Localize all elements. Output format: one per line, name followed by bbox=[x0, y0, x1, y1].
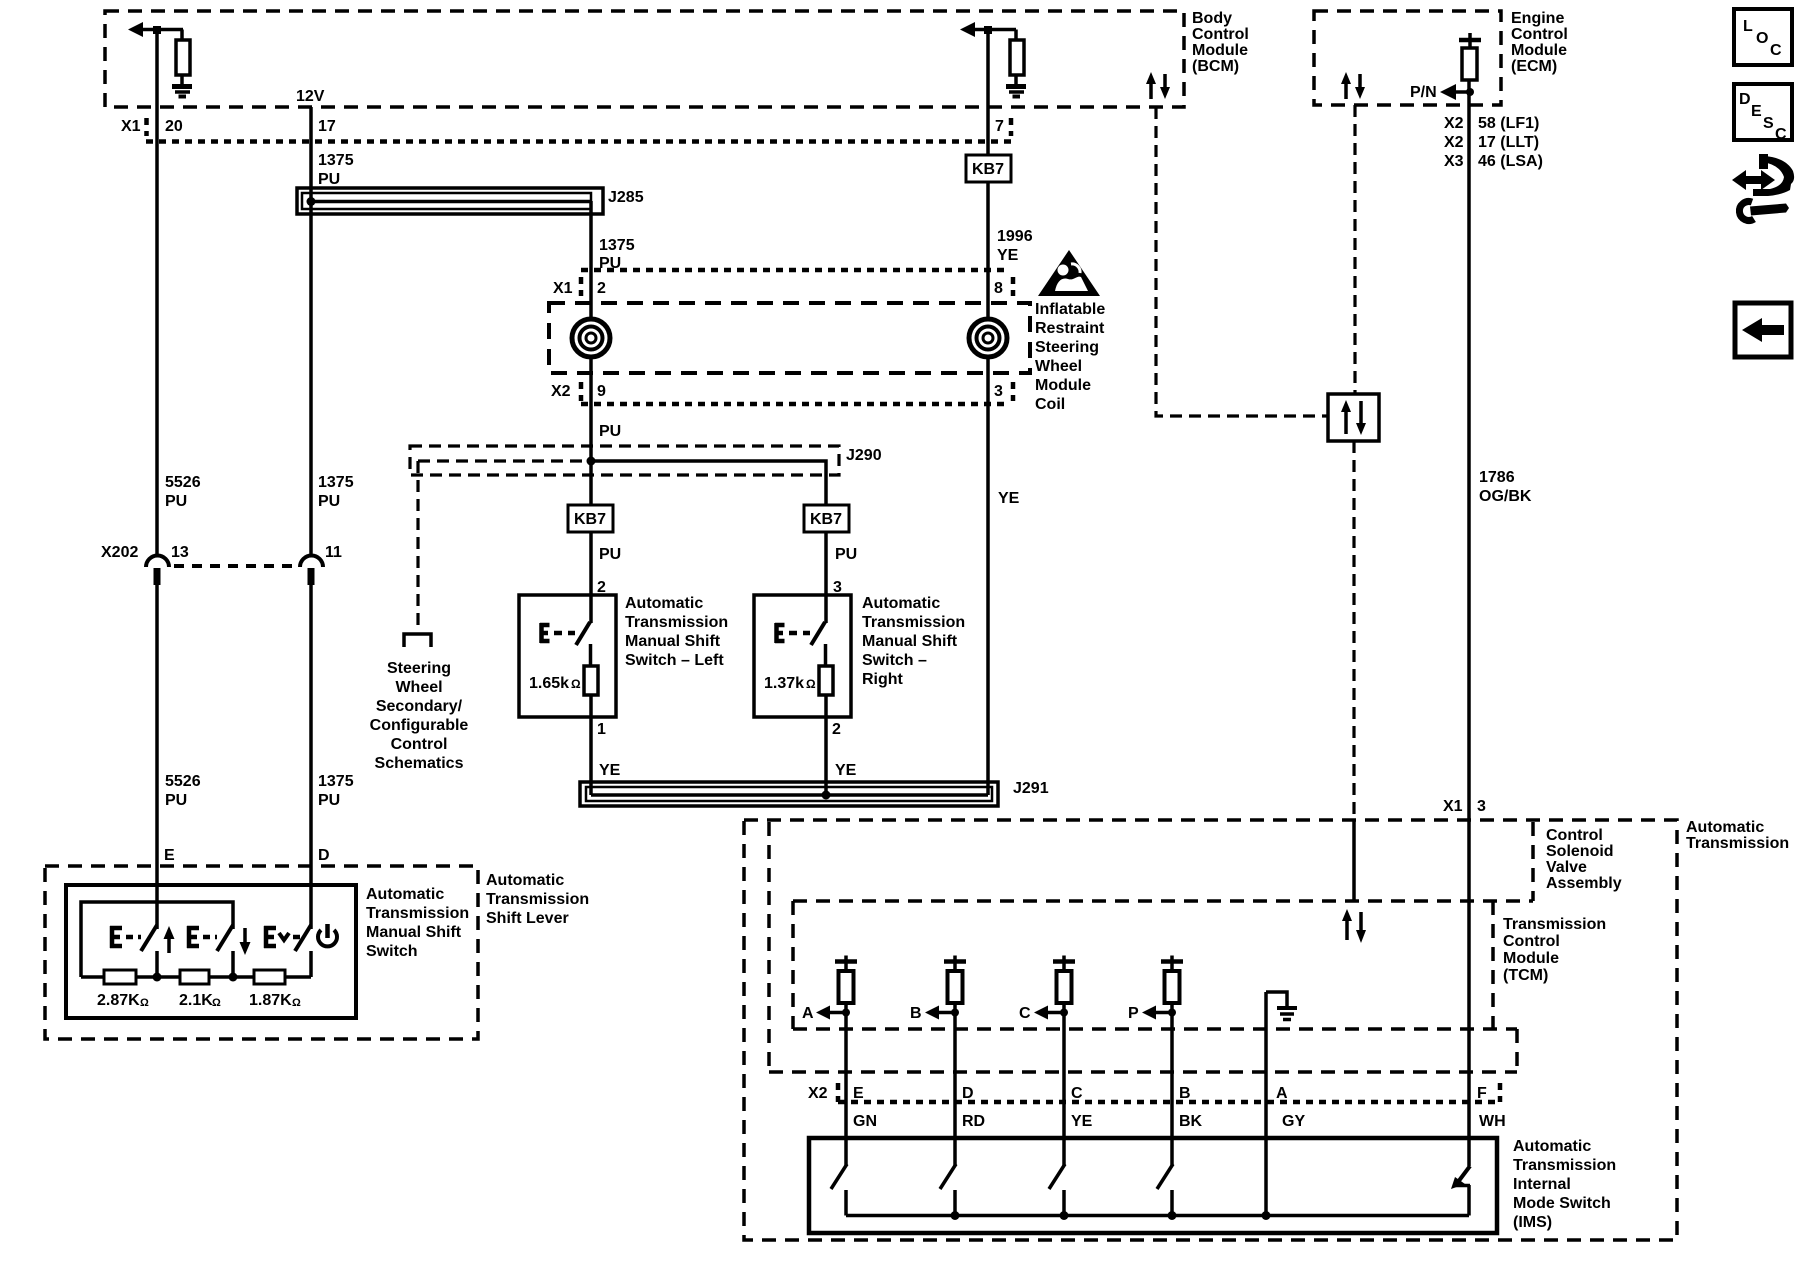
svg-text:O: O bbox=[1756, 30, 1768, 47]
svg-text:Steering: Steering bbox=[1035, 339, 1099, 356]
coil left (clockspring) bbox=[572, 319, 610, 357]
svg-text:BK: BK bbox=[1179, 1113, 1203, 1130]
label 1375 PU lower bbox=[318, 773, 354, 809]
label 2.87K ohm bbox=[97, 992, 149, 1009]
svg-text:1375: 1375 bbox=[599, 237, 635, 254]
svg-text:Configurable: Configurable bbox=[370, 717, 469, 734]
switch box left (Automatic Transmission Manual Shift Switch - Left) bbox=[519, 595, 616, 717]
label Control Solenoid Valve Assembly bbox=[1546, 827, 1622, 892]
label Automatic Transmission Shift Lever bbox=[486, 872, 589, 927]
svg-text:Transmission: Transmission bbox=[625, 614, 728, 631]
switch IMS E bbox=[831, 1164, 847, 1216]
svg-text:1786: 1786 bbox=[1479, 469, 1515, 486]
svg-text:OG/BK: OG/BK bbox=[1479, 488, 1532, 505]
svg-text:PU: PU bbox=[599, 423, 621, 440]
connector X1 pin 3 (transmission) bbox=[1443, 798, 1486, 815]
connector X1 row (coil module) bbox=[553, 270, 1013, 297]
label 5526 PU lower bbox=[165, 773, 201, 809]
svg-text:Control: Control bbox=[1503, 933, 1560, 950]
svg-text:Internal: Internal bbox=[1513, 1176, 1571, 1193]
svg-text:Transmission: Transmission bbox=[1503, 916, 1606, 933]
svg-text:Transmission: Transmission bbox=[1513, 1157, 1616, 1174]
svg-text:Module: Module bbox=[1035, 377, 1091, 394]
svg-text:X2: X2 bbox=[551, 383, 571, 400]
svg-text:PU: PU bbox=[165, 493, 187, 510]
label Body Control Module (BCM) bbox=[1192, 10, 1249, 75]
label 1375 PU upper (wire 11) bbox=[318, 474, 354, 510]
arrow up (upshift) bbox=[164, 926, 175, 953]
resistor 1.87K bbox=[254, 970, 285, 984]
switch IMS D bbox=[940, 1164, 956, 1216]
wire ECM pin to IMS F bbox=[1467, 80, 1471, 1166]
svg-text:Right: Right bbox=[862, 671, 904, 688]
wire solenoid C to IMS C bbox=[1062, 1003, 1066, 1166]
icon power (tap mode) bbox=[318, 924, 337, 946]
svg-text:8: 8 bbox=[994, 280, 1003, 297]
connector X202 pin 11 bbox=[300, 544, 342, 585]
connector X2 row (coil module) bbox=[551, 382, 1013, 404]
wire serial data ECM dashed bbox=[1353, 105, 1356, 394]
svg-text:Automatic: Automatic bbox=[486, 872, 564, 889]
svg-text:YE: YE bbox=[1071, 1113, 1093, 1130]
svg-text:Transmission: Transmission bbox=[1686, 835, 1789, 852]
resistor 2.1K bbox=[180, 970, 209, 984]
svg-text:PU: PU bbox=[165, 792, 187, 809]
svg-text:46 (LSA): 46 (LSA) bbox=[1478, 153, 1543, 170]
solenoid B (wire D) bbox=[944, 956, 966, 1004]
splice J290 dashed box bbox=[410, 446, 839, 475]
icon LOC box bbox=[1734, 9, 1792, 65]
svg-text:P/N: P/N bbox=[1410, 84, 1437, 101]
wire X202 harness dashed link bbox=[174, 564, 297, 568]
wire serial data BCM dashed bbox=[1156, 107, 1328, 416]
svg-text:X2: X2 bbox=[1444, 115, 1464, 132]
svg-text:A: A bbox=[802, 1005, 814, 1022]
label Automatic Transmission Internal Mode Switch (IMS) bbox=[1513, 1138, 1616, 1231]
label Automatic Transmission Manual Shift Switch bbox=[366, 886, 469, 960]
svg-text:58 (LF1): 58 (LF1) bbox=[1478, 115, 1539, 132]
module box Inflatable Restraint Steering Wheel Module Coil bbox=[549, 303, 1030, 373]
svg-text:12V: 12V bbox=[296, 88, 325, 105]
svg-text:13: 13 bbox=[171, 544, 189, 561]
svg-text:Body: Body bbox=[1192, 10, 1232, 27]
svg-text:L: L bbox=[1743, 18, 1753, 35]
wire gateway to TCM solid bbox=[1352, 820, 1356, 901]
ground symbol BCM branch 1 bbox=[172, 87, 192, 97]
wire X202-11 to shift lever D bbox=[309, 585, 313, 929]
splice J285 bus bar bbox=[297, 188, 603, 214]
module box ECM bbox=[1314, 11, 1501, 105]
label Automatic Transmission bbox=[1686, 819, 1789, 852]
wire J290 junction to right KB7 bbox=[587, 457, 827, 506]
svg-text:Ω: Ω bbox=[140, 997, 149, 1009]
svg-text:(ECM): (ECM) bbox=[1511, 58, 1557, 75]
arrow B bbox=[910, 1005, 959, 1022]
airbag warning triangle bbox=[1038, 250, 1100, 296]
svg-text:KB7: KB7 bbox=[972, 161, 1004, 178]
svg-text:B: B bbox=[1179, 1085, 1191, 1102]
svg-text:X1: X1 bbox=[1443, 798, 1463, 815]
svg-text:Wheel: Wheel bbox=[395, 679, 442, 696]
svg-text:Coil: Coil bbox=[1035, 396, 1065, 413]
svg-text:Inflatable: Inflatable bbox=[1035, 301, 1105, 318]
svg-text:PU: PU bbox=[318, 493, 340, 510]
svg-text:P: P bbox=[1128, 1005, 1139, 1022]
resistor in BCM branch 2 bbox=[1010, 30, 1024, 85]
svg-text:F: F bbox=[1477, 1085, 1487, 1102]
coil right (clockspring) bbox=[969, 319, 1007, 357]
svg-text:Schematics: Schematics bbox=[375, 755, 464, 772]
svg-text:11: 11 bbox=[325, 544, 342, 561]
module box Automatic Transmission Shift Lever bbox=[45, 866, 478, 1039]
wire arrow left (BCM internal, pin 20 branch) bbox=[128, 22, 183, 37]
module box BCM bbox=[105, 11, 1184, 107]
arrow C bbox=[1019, 1005, 1068, 1022]
svg-text:2: 2 bbox=[597, 280, 606, 297]
svg-text:J290: J290 bbox=[846, 447, 882, 464]
svg-text:PU: PU bbox=[318, 171, 340, 188]
label 1.87K ohm bbox=[249, 992, 301, 1009]
svg-text:Wheel: Wheel bbox=[1035, 358, 1082, 375]
svg-text:J285: J285 bbox=[608, 189, 644, 206]
svg-text:17: 17 bbox=[318, 118, 336, 135]
wire right switch pin2 to J291 bbox=[824, 695, 828, 795]
wire solenoid P to IMS B bbox=[1170, 1003, 1174, 1166]
switch 1 (upshift) bbox=[110, 925, 157, 977]
svg-text:2.87K: 2.87K bbox=[97, 992, 140, 1009]
label 2.1K ohm bbox=[179, 992, 221, 1009]
svg-text:Switch – Left: Switch – Left bbox=[625, 652, 724, 669]
svg-text:1: 1 bbox=[597, 721, 606, 738]
svg-text:Automatic: Automatic bbox=[1686, 819, 1764, 836]
svg-text:X3: X3 bbox=[1444, 153, 1464, 170]
ground symbol BCM branch 2 bbox=[1006, 87, 1026, 97]
solenoid symbol ECM (P/N switch) bbox=[1459, 33, 1481, 80]
switch 2 (downshift) bbox=[187, 925, 233, 977]
svg-text:2.1K: 2.1K bbox=[179, 992, 213, 1009]
svg-text:S: S bbox=[1763, 115, 1774, 132]
svg-text:Shift Lever: Shift Lever bbox=[486, 910, 569, 927]
svg-text:A: A bbox=[1276, 1085, 1288, 1102]
label Inflatable Restraint Steering Wheel Module Coil bbox=[1035, 301, 1105, 413]
switch IMS C bbox=[1049, 1164, 1065, 1216]
wire solenoid B to IMS D bbox=[953, 1003, 957, 1166]
wire arrow left (BCM internal, pin 7 branch) bbox=[960, 22, 1016, 37]
svg-text:3: 3 bbox=[1477, 798, 1486, 815]
icon back-arrow box bbox=[1735, 303, 1791, 357]
svg-text:2: 2 bbox=[832, 721, 841, 738]
module box Control Solenoid Valve Assembly bbox=[769, 822, 1533, 1072]
serial data symbol in BCM bbox=[1146, 72, 1170, 99]
svg-text:(TCM): (TCM) bbox=[1503, 967, 1548, 984]
wire J285 to coil X1-2 bbox=[589, 201, 593, 505]
svg-text:YE: YE bbox=[599, 762, 621, 779]
svg-text:1.65k: 1.65k bbox=[529, 675, 569, 692]
wire solenoid A to IMS E bbox=[844, 1003, 848, 1166]
svg-text:1.37k: 1.37k bbox=[764, 675, 804, 692]
svg-text:Ω: Ω bbox=[571, 677, 581, 691]
svg-text:KB7: KB7 bbox=[574, 511, 606, 528]
svg-text:Automatic: Automatic bbox=[366, 886, 444, 903]
svg-text:YE: YE bbox=[997, 247, 1019, 264]
solenoid C (wire C) bbox=[1053, 956, 1075, 1004]
wire KB7 left to switch left bbox=[589, 532, 593, 623]
component box IMS bbox=[809, 1138, 1497, 1233]
ground symbol TCM bbox=[1266, 992, 1297, 1020]
wire KB7 right to switch right bbox=[824, 532, 828, 623]
wire BCM pin7 vertical bbox=[986, 30, 990, 156]
icon DESC box bbox=[1734, 84, 1792, 143]
switch box right (Automatic Transmission Manual Shift Switch - Right) bbox=[754, 595, 851, 717]
wire ground to IMS A bbox=[1264, 992, 1268, 1216]
svg-text:C: C bbox=[1775, 126, 1787, 143]
svg-text:X1: X1 bbox=[553, 280, 573, 297]
svg-text:C: C bbox=[1019, 1005, 1031, 1022]
svg-text:B: B bbox=[910, 1005, 922, 1022]
switch IMS F (wiper) bbox=[1451, 1166, 1470, 1216]
hidden wire J290 to steering wheel schematics bbox=[418, 461, 591, 632]
svg-text:KB7: KB7 bbox=[810, 511, 842, 528]
svg-text:7: 7 bbox=[995, 118, 1004, 135]
svg-text:3: 3 bbox=[994, 383, 1003, 400]
svg-text:WH: WH bbox=[1479, 1113, 1506, 1130]
svg-text:Automatic: Automatic bbox=[1513, 1138, 1591, 1155]
wire color labels bbox=[853, 1113, 1506, 1130]
svg-text:Transmission: Transmission bbox=[486, 891, 589, 908]
svg-text:C: C bbox=[1770, 42, 1782, 59]
svg-text:17 (LLT): 17 (LLT) bbox=[1478, 134, 1539, 151]
serial data symbol at TCM bbox=[1342, 909, 1366, 943]
svg-text:Switch: Switch bbox=[366, 943, 418, 960]
svg-text:D: D bbox=[1739, 91, 1751, 108]
label Steering Wheel Secondary Configurable Control Schematics bbox=[370, 660, 469, 772]
svg-text:1375: 1375 bbox=[318, 773, 354, 790]
reference bracket steering wheel schematics bbox=[404, 634, 431, 647]
svg-text:X2: X2 bbox=[808, 1085, 828, 1102]
svg-text:YE: YE bbox=[998, 490, 1020, 507]
svg-text:Automatic: Automatic bbox=[862, 595, 940, 612]
switch symbol right bbox=[775, 622, 826, 666]
connector X202 pin 13 bbox=[101, 544, 189, 585]
svg-text:1.87K: 1.87K bbox=[249, 992, 292, 1009]
arrow A bbox=[802, 1005, 850, 1022]
svg-text:Manual Shift: Manual Shift bbox=[366, 924, 462, 941]
connector X2 row (TCM to IMS) bbox=[808, 1083, 1500, 1102]
svg-text:5526: 5526 bbox=[165, 474, 201, 491]
label Automatic Transmission Manual Shift Switch - Right bbox=[862, 595, 965, 688]
connector rows ECM pins bbox=[1444, 115, 1543, 170]
module box TCM bbox=[793, 901, 1533, 1072]
switch IMS B bbox=[1157, 1164, 1173, 1216]
svg-text:Restraint: Restraint bbox=[1035, 320, 1105, 337]
svg-text:Transmission: Transmission bbox=[366, 905, 469, 922]
wire internal frame shift switch bbox=[81, 902, 233, 977]
wire BCM pin17 12V feed bbox=[309, 107, 313, 555]
svg-text:YE: YE bbox=[835, 762, 857, 779]
connector X1 row (BCM) bbox=[121, 118, 1011, 142]
svg-text:5526: 5526 bbox=[165, 773, 201, 790]
label P/N with arrow bbox=[1410, 84, 1474, 101]
svg-text:Assembly: Assembly bbox=[1546, 875, 1622, 892]
svg-text:Manual Shift: Manual Shift bbox=[862, 633, 958, 650]
svg-text:Module: Module bbox=[1503, 950, 1559, 967]
svg-text:Ω: Ω bbox=[212, 997, 221, 1009]
arrow down (downshift) bbox=[240, 928, 251, 955]
svg-text:PU: PU bbox=[599, 546, 621, 563]
arrow P bbox=[1128, 1005, 1176, 1022]
svg-text:Valve: Valve bbox=[1546, 859, 1587, 876]
svg-text:Control: Control bbox=[1546, 827, 1603, 844]
svg-text:1996: 1996 bbox=[997, 228, 1033, 245]
resistor in BCM branch 1 bbox=[176, 30, 190, 85]
svg-text:Module: Module bbox=[1511, 42, 1567, 59]
svg-text:D: D bbox=[318, 847, 330, 864]
svg-text:E: E bbox=[853, 1085, 864, 1102]
splice J291 bus bar bbox=[580, 782, 998, 806]
svg-text:1375: 1375 bbox=[318, 474, 354, 491]
component box Automatic Transmission Manual Shift Switch bbox=[66, 885, 356, 1018]
wire pin7 KB7 to coil bbox=[986, 182, 990, 795]
pin letters X2 row bbox=[853, 1085, 1487, 1102]
svg-text:Module: Module bbox=[1192, 42, 1248, 59]
wire IMS common bus bbox=[846, 1211, 1469, 1220]
svg-text:1375: 1375 bbox=[318, 152, 354, 169]
svg-text:Ω: Ω bbox=[292, 997, 301, 1009]
svg-text:9: 9 bbox=[597, 383, 606, 400]
switch symbol left bbox=[540, 622, 591, 666]
label 5526 PU upper bbox=[165, 474, 201, 510]
label 1375 PU (J285 output) bbox=[599, 237, 635, 272]
resistor 1.65k left switch bbox=[529, 666, 598, 695]
svg-text:GN: GN bbox=[853, 1113, 877, 1130]
label KB7 fuse (pin7 wire) bbox=[966, 155, 1011, 182]
label Engine Control Module (ECM) bbox=[1511, 10, 1568, 75]
label 1375 PU (pin17 wire) bbox=[318, 152, 354, 188]
svg-text:Control: Control bbox=[1192, 26, 1249, 43]
label KB7 fuse left bbox=[568, 505, 613, 532]
svg-text:Solenoid: Solenoid bbox=[1546, 843, 1614, 860]
svg-text:Automatic: Automatic bbox=[625, 595, 703, 612]
svg-text:PU: PU bbox=[835, 546, 857, 563]
label KB7 fuse right bbox=[804, 505, 849, 532]
svg-text:Steering: Steering bbox=[387, 660, 451, 677]
svg-text:GY: GY bbox=[1282, 1113, 1305, 1130]
solenoid P (wire B) bbox=[1161, 956, 1183, 1004]
svg-text:E: E bbox=[1751, 103, 1762, 120]
svg-text:D: D bbox=[962, 1085, 974, 1102]
switch 3 (tap mode) bbox=[264, 925, 311, 977]
serial data gateway box bbox=[1328, 394, 1379, 441]
label Transmission Control Module (TCM) bbox=[1503, 916, 1606, 984]
svg-text:Transmission: Transmission bbox=[862, 614, 965, 631]
svg-text:X202: X202 bbox=[101, 544, 138, 561]
wire X202-13 to shift lever E bbox=[155, 585, 159, 929]
svg-text:Control: Control bbox=[391, 736, 448, 753]
svg-text:Ω: Ω bbox=[806, 677, 816, 691]
svg-text:Engine: Engine bbox=[1511, 10, 1564, 27]
svg-text:C: C bbox=[1071, 1085, 1083, 1102]
svg-text:J291: J291 bbox=[1013, 780, 1049, 797]
module box Automatic Transmission bbox=[744, 820, 1677, 1240]
wire BCM pin20 vertical bbox=[155, 30, 159, 556]
resistor 2.87K bbox=[104, 970, 136, 984]
svg-text:PU: PU bbox=[318, 792, 340, 809]
svg-text:Secondary/: Secondary/ bbox=[376, 698, 463, 715]
svg-text:Control: Control bbox=[1511, 26, 1568, 43]
wire left switch pin1 to J291 bbox=[589, 695, 593, 795]
label Automatic Transmission Manual Shift Switch - Left bbox=[625, 595, 728, 669]
svg-text:Manual Shift: Manual Shift bbox=[625, 633, 721, 650]
svg-text:X2: X2 bbox=[1444, 134, 1464, 151]
solenoid A (wire E) bbox=[835, 956, 857, 1004]
svg-text:X1: X1 bbox=[121, 118, 141, 135]
icon diagnostic arrows + wrench bbox=[1732, 154, 1794, 220]
label 1786 OG/BK bbox=[1479, 469, 1532, 505]
svg-text:E: E bbox=[164, 847, 175, 864]
svg-text:Switch –: Switch – bbox=[862, 652, 927, 669]
svg-text:RD: RD bbox=[962, 1113, 985, 1130]
svg-text:Mode Switch: Mode Switch bbox=[1513, 1195, 1611, 1212]
label 1996 YE bbox=[997, 228, 1033, 264]
wire gateway to TCM dashed bbox=[1352, 441, 1355, 820]
svg-text:(BCM): (BCM) bbox=[1192, 58, 1239, 75]
serial data symbol in ECM bbox=[1341, 72, 1365, 99]
svg-text:20: 20 bbox=[165, 118, 183, 135]
svg-text:(IMS): (IMS) bbox=[1513, 1214, 1552, 1231]
resistor 1.37k right switch bbox=[764, 666, 833, 695]
wire resistor ladder bbox=[81, 973, 311, 982]
